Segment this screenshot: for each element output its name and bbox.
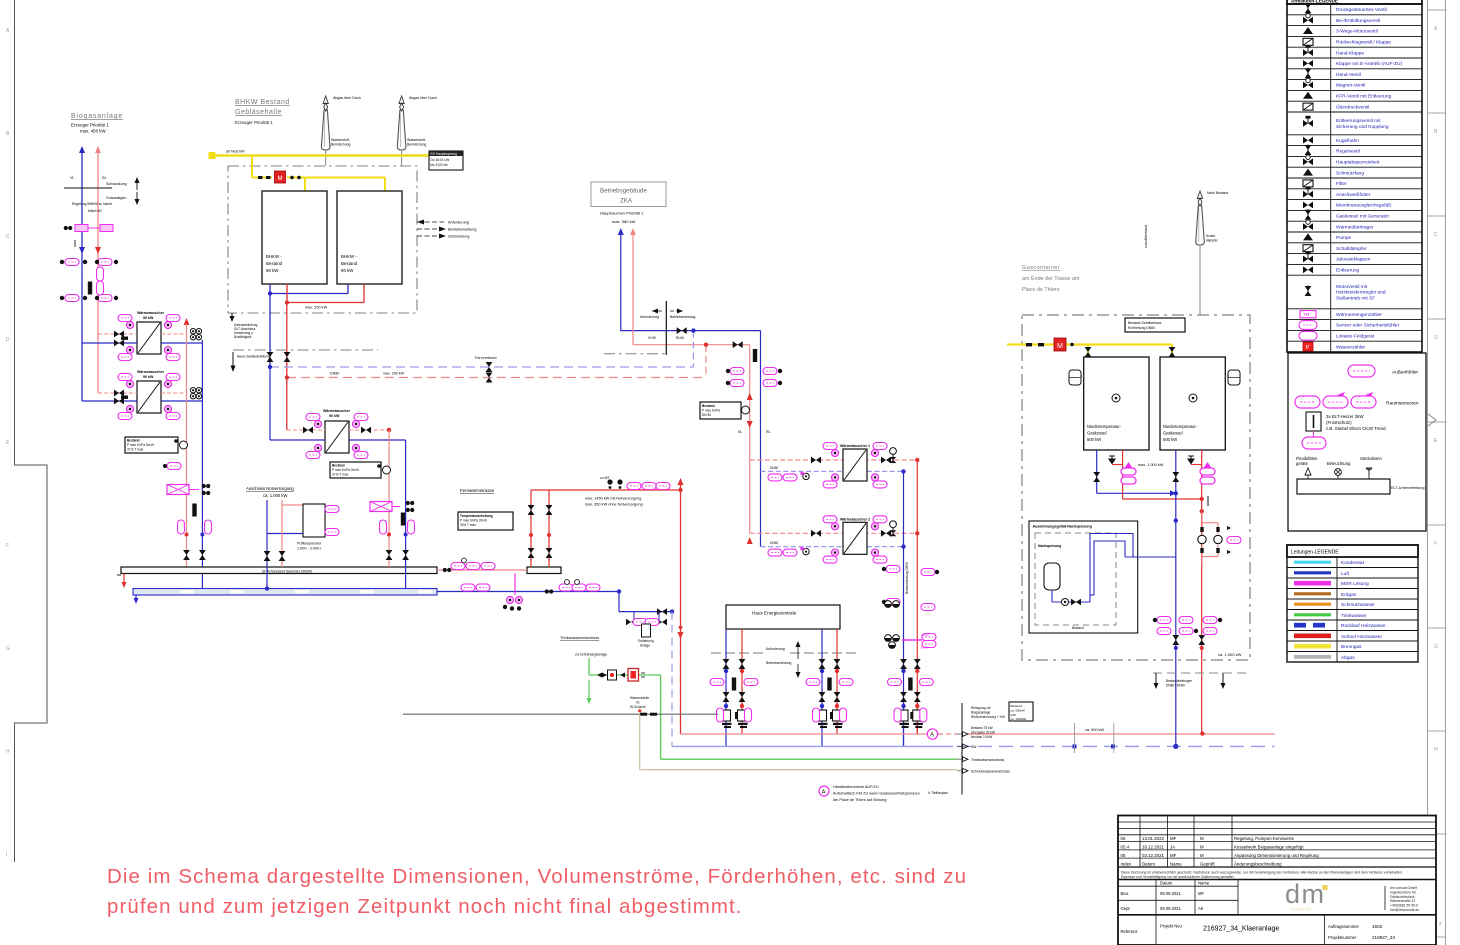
svg-text:Abgas über Dach: Abgas über Dach [333, 96, 361, 100]
wire: red riser x=682 down [680, 483, 682, 734]
svg-text:D: D [1434, 335, 1438, 341]
svg-text:Place de Thiers: Place de Thiers [1022, 287, 1060, 293]
svg-text:dämpfer: dämpfer [1206, 238, 1219, 242]
boundary marker ticks [1074, 723, 1076, 753]
svg-text:Leitungen-LEGENDE: Leitungen-LEGENDE [1291, 550, 1339, 556]
svg-text:Haus Energiezentrale: Haus Energiezentrale [752, 611, 797, 616]
svg-text:Ausdehnungsgefäß-Nachspeisung: Ausdehnungsgefäß-Nachspeisung [1033, 525, 1092, 529]
netz pumps subcircuit [1202, 511, 1218, 565]
wire: right paper frame lines [1428, 0, 1446, 945]
svg-text:Kugelhahn: Kugelhahn [1336, 138, 1359, 144]
capsules below blue Wärmetauscher 2 [768, 541, 797, 556]
svg-text:Bestand: Bestand [341, 261, 358, 266]
svg-text:DN50: DN50 [921, 646, 929, 650]
ausdehnungsgefaess box [1029, 521, 1138, 633]
sensor capsules vertical chain [88, 267, 104, 295]
svg-text:Wasserzähler: Wasserzähler [630, 696, 650, 700]
svg-text:BHKW Bestand: BHKW Bestand [235, 99, 290, 106]
pump kessel 2 (magenta) [1200, 462, 1215, 484]
svg-text:RL: RL [102, 176, 107, 180]
svg-text:+49(0)681 55 55-0: +49(0)681 55 55-0 [1390, 904, 1418, 908]
svg-text:Enthärtung: Enthärtung [638, 639, 654, 643]
svg-text:M: M [278, 176, 283, 182]
svg-text:G: G [1434, 644, 1438, 650]
svg-text:Neubau 10 kW: Neubau 10 kW [971, 735, 992, 739]
svg-text:Betriebsgebäude: Betriebsgebäude [600, 188, 647, 195]
svg-text:37 B T max: 37 B T max [127, 447, 144, 451]
svg-text:Name: Name [1198, 881, 1210, 886]
svg-text:Gascontainer: Gascontainer [1022, 265, 1060, 271]
wire: yellow gas line gascontainer [1007, 343, 1172, 345]
svg-text:Luft: Luft [1341, 571, 1350, 577]
svg-text:Regelventil: Regelventil [1336, 149, 1360, 155]
svg-text:3x ELT-Heizer 2kW: 3x ELT-Heizer 2kW [1326, 414, 1364, 419]
svg-text:M: M [1200, 845, 1204, 850]
svg-text:Bestandsleitungen: Bestandsleitungen [1166, 679, 1192, 683]
svg-text:St 40 Bestand Sammler DN200: St 40 Bestand Sammler DN200 [262, 569, 312, 573]
pump column pair at x=726/742 [725, 629, 727, 746]
gaskessel K1 [1084, 357, 1149, 450]
svg-text:zur Enthärtungsanlage: zur Enthärtungsanlage [575, 653, 607, 657]
svg-text:Lokales Feldgerät: Lokales Feldgerät [1336, 334, 1375, 340]
svg-text:1.000 - 2.000 l: 1.000 - 2.000 l [297, 547, 321, 551]
svg-text:RL: RL [766, 430, 771, 434]
svg-text:Anschweißfutter: Anschweißfutter [1336, 192, 1371, 198]
label box Temperaturanhebung [458, 512, 513, 530]
svg-text:500 kW: 500 kW [1087, 437, 1101, 442]
node: Gascontainer label [1022, 265, 1080, 293]
svg-text:geräte: geräte [1296, 461, 1309, 466]
svg-text:consult: consult [1291, 907, 1313, 912]
motor valve Wärmetauscher 1 [890, 448, 897, 455]
label box Uebergabe [1009, 702, 1033, 721]
svg-text:Jalousieklappen: Jalousieklappen [1336, 257, 1371, 263]
wire: puffer red line [282, 500, 303, 567]
svg-text:Wärmeübertrager: Wärmeübertrager [1336, 224, 1374, 230]
svg-text:Magnet-Ventil: Magnet-Ventil [1336, 83, 1365, 89]
wire: dash-dot boundary below BHKW [233, 349, 378, 351]
wire: blue riser x=202.4 to manifold [201, 340, 203, 589]
svg-text:90 kW: 90 kW [143, 375, 154, 379]
BHKW unit 1 [262, 191, 327, 284]
svg-text:Trinkwasseranschluss: Trinkwasseranschluss [560, 635, 599, 640]
svg-text:Gebläsehalle: Gebläsehalle [235, 109, 282, 116]
svg-text:Eigentum und Vervielfältigung: Eigentum und Vervielfältigung nur mit au… [1121, 875, 1235, 879]
svg-text:500 kW: 500 kW [1163, 437, 1177, 442]
wire: blue riser x=405.6 [405, 440, 407, 589]
svg-text:SW: SW [971, 745, 977, 749]
svg-text:Datum: Datum [1160, 881, 1173, 886]
svg-text:39.6 T max: 39.6 T max [460, 523, 476, 527]
legend table: Armaturen-Symbole [1287, 0, 1422, 352]
svg-text:dm consult GmbH: dm consult GmbH [1390, 886, 1418, 890]
motor valve Wärmetauscher 2 [890, 521, 897, 528]
svg-text:Rückverstromung + KW: Rückverstromung + KW [971, 715, 1005, 719]
svg-text:RL60: RL60 [676, 336, 684, 340]
svg-text:Rücklauf Heizwasser: Rücklauf Heizwasser [1341, 623, 1386, 629]
BHKW unit 2 [337, 191, 402, 284]
node: Biogasanlage label [71, 113, 123, 134]
svg-text:max. 200 kW: max. 200 kW [383, 372, 405, 376]
svg-text:Außenfühler: Außenfühler [1392, 370, 1419, 376]
wire: left paper frame line [15, 0, 48, 862]
svg-text:Klappe mit E-Antrieb (AUF-ZU): Klappe mit E-Antrieb (AUF-ZU) [1336, 61, 1403, 67]
node: Datenanbindung label [231, 313, 233, 321]
svg-text:Nachspeisung: Nachspeisung [1038, 544, 1061, 548]
svg-text:Regelung, Pumpen-Kennwerte: Regelung, Pumpen-Kennwerte [1234, 836, 1295, 841]
svg-text:Hauptabsperreinheit: Hauptabsperreinheit [1336, 160, 1380, 166]
wire: puffer blue line [267, 500, 303, 589]
svg-text:13.01.2022: 13.01.2022 [1142, 836, 1165, 841]
svg-text:DN80: DN80 [330, 372, 339, 376]
svg-text:Name: Name [1170, 861, 1182, 866]
svg-text:(Frostschutz): (Frostschutz) [1326, 420, 1352, 425]
svg-text:Sicherung und Kupplung: Sicherung und Kupplung [1336, 124, 1389, 130]
capsule rows on K2 lines [1153, 617, 1222, 635]
pump: make-up below manifold [514, 574, 516, 596]
svg-text:BHKW -: BHKW - [341, 254, 357, 259]
vessel: Enthaertung [642, 624, 651, 637]
svg-text:Auftragsnummer: Auftragsnummer [1328, 924, 1360, 929]
pump column pair at x=903.5/917.3 [903, 700, 905, 746]
svg-text:Pufferspeicher: Pufferspeicher [297, 542, 322, 546]
manifold: Vorlauf header bar segment 2 [527, 567, 561, 574]
svg-text:Niedertemperatur-: Niedertemperatur- [1163, 424, 1198, 429]
svg-text:Die im Schema dargestellte Dim: Die im Schema dargestellte Dimensionen, … [107, 865, 967, 888]
svg-text:Projekt Neu: Projekt Neu [1160, 924, 1183, 929]
svg-text:Beimischung: Beimischung [407, 142, 427, 146]
wire: ZKA red return [633, 234, 750, 345]
svg-text:Anschluss Notversorgung: Anschluss Notversorgung [246, 486, 294, 491]
svg-text:08.09.2021: 08.09.2021 [1160, 891, 1182, 896]
svg-text:Busfähigkeit: Busfähigkeit [234, 335, 251, 339]
wire: blue main [672, 745, 953, 747]
svg-text:G: G [6, 646, 10, 652]
svg-text:Druckgesteuertes Ventil: Druckgesteuertes Ventil [1336, 7, 1387, 13]
svg-text:TM: TM [1303, 312, 1310, 317]
svg-text:Datum: Datum [1142, 861, 1155, 866]
svg-text:Betriebsmeldung: Betriebsmeldung [766, 661, 792, 665]
svg-text:Überdruckventil: Überdruckventil [1336, 103, 1369, 110]
svg-text:zum Altbestand: zum Altbestand [1144, 225, 1148, 248]
handover circle A (red main) [927, 729, 937, 739]
svg-text:BHKW -: BHKW - [266, 254, 282, 259]
wire: fernwaerme red dashed main [287, 377, 706, 379]
pump cluster top pair3 [885, 601, 936, 650]
wire: manifold left end stubs [123, 574, 125, 585]
legend table: Leitungen-LEGENDE [1287, 545, 1418, 662]
wire: ZKA blue supply [621, 234, 761, 331]
svg-text:Handbedienebene AUF/ZU: Handbedienebene AUF/ZU [833, 785, 879, 789]
svg-text:P max 6 kPa: P max 6 kPa [702, 408, 720, 412]
label box Bestand WT [125, 437, 188, 453]
svg-text:Regelung BHKW zu Nacht: Regelung BHKW zu Nacht [72, 202, 112, 206]
svg-text:Anforderung: Anforderung [448, 221, 469, 225]
svg-text:Schmutzfang: Schmutzfang [1336, 170, 1364, 176]
svg-text:Betriebsmeldung: Betriebsmeldung [670, 315, 696, 319]
wire: verbraucher red riser x=749.7 [749, 345, 751, 534]
svg-text:Störmeldung: Störmeldung [448, 235, 470, 239]
svg-text:A: A [930, 733, 934, 739]
svg-text:DN 50: DN 50 [702, 413, 711, 417]
svg-text:Bestand:: Bestand: [1011, 704, 1023, 708]
magnet valve M (red) on gas branch [275, 171, 286, 183]
svg-text:Be-/Entlüftungsventil: Be-/Entlüftungsventil [1336, 18, 1380, 24]
svg-text:16.12.2021: 16.12.2021 [1142, 845, 1165, 850]
svg-text:Aufschaltisch KM ZU wenn Gaske: Aufschaltisch KM ZU wenn Gaskessel/Netzp… [833, 792, 920, 796]
expansion vessels at kessels [1069, 370, 1084, 385]
svg-text:Bestand: Bestand [1072, 626, 1084, 630]
svg-text:M: M [1057, 343, 1063, 350]
wire: tan schmutzwasser [640, 714, 957, 770]
wire: red riser x=186.5 to manifold [186, 324, 188, 567]
svg-text:Anpassung Dimensionierung und: Anpassung Dimensionierung und Regelung [1234, 853, 1319, 858]
svg-text:Motorventil mit: Motorventil mit [1336, 284, 1368, 290]
svg-text:Wärmetauscher: Wärmetauscher [137, 311, 165, 315]
wire: K1 blue out [1097, 450, 1176, 493]
sensors on trasse [607, 479, 670, 489]
node: left margin row letters [6, 28, 10, 858]
svg-text:Wärmetauscher: Wärmetauscher [137, 370, 165, 374]
svg-text:ZKA: ZKA [620, 198, 633, 205]
svg-text:Wärmetauscher: Wärmetauscher [323, 409, 351, 413]
svg-text:max. 580 kW: max. 580 kW [612, 219, 636, 224]
wire: BHKW red collector [287, 284, 364, 430]
svg-text:Membranausgleichsgefäß: Membranausgleichsgefäß [1336, 203, 1391, 209]
svg-text:F: F [1434, 541, 1437, 547]
gaskessel K2 [1160, 357, 1225, 450]
svg-text:Hauptrauchen Priorität 1: Hauptrauchen Priorität 1 [600, 211, 644, 216]
svg-text:Anforderung: Anforderung [640, 315, 659, 319]
heat exchanger WT-A [82, 311, 202, 361]
svg-text:Brenngas: Brenngas [1341, 644, 1362, 650]
svg-text:Bestand 75 kW: Bestand 75 kW [971, 726, 993, 730]
sensor capsule row 2 [60, 295, 118, 302]
svg-text:Schwankung: Schwankung [106, 182, 127, 186]
svg-text:Schalldämpfer: Schalldämpfer [1336, 246, 1367, 252]
wire: red riser x=917.3 to energiezentrale [916, 460, 918, 734]
below gascontainer: bestand arrows [1153, 672, 1250, 674]
MSR flow meter on red riser [167, 484, 210, 495]
svg-text:am Place de Thiers auf Störung: am Place de Thiers auf Störung [833, 798, 886, 802]
wire: blue riser x=903.5 to energiezentrale [903, 471, 905, 746]
wire: site boundary vertical [961, 703, 963, 795]
svg-text:Hand-Ventil: Hand-Ventil [1336, 72, 1361, 78]
svg-text:ca. 1.000 kW: ca. 1.000 kW [1218, 652, 1242, 657]
svg-text:Anlage: Anlage [640, 643, 650, 647]
svg-text:Bestandsleitung DN50: Bestandsleitung DN50 [905, 562, 909, 594]
svg-text:DN50: DN50 [921, 633, 929, 637]
gascontainer dash-dot enclosure [1022, 315, 1250, 660]
svg-text:06: 06 [1121, 836, 1126, 841]
svg-text:A: A [822, 790, 826, 796]
signal arrows Anforderung/Betriebsmeldung/Stoermeldung [417, 222, 444, 236]
wire: biogas VL riser (blue) [81, 153, 83, 401]
svg-text:Abgas über Dach: Abgas über Dach [409, 96, 437, 100]
svg-text:Pumpe: Pumpe [1336, 235, 1352, 241]
big junction dots on mains [1173, 744, 1178, 749]
svg-text:Wärmemengenzähler: Wärmemengenzähler [1336, 312, 1382, 318]
svg-text:90 kW: 90 kW [266, 268, 279, 273]
svg-text:Biogasanlage: Biogasanlage [71, 113, 123, 120]
svg-text:Betriebsmeldung: Betriebsmeldung [448, 228, 477, 232]
svg-text:KFR-Ventil mit Entleerung: KFR-Ventil mit Entleerung [1336, 94, 1392, 100]
svg-text:VL90: VL90 [648, 336, 656, 340]
wire: red connector between manifolds [437, 569, 527, 571]
pump kessel 1 (magenta) [1121, 462, 1136, 484]
wire: K1 red out + pump [1123, 450, 1202, 499]
svg-text:Schmutzwasser: Schmutzwasser [1341, 602, 1375, 608]
svg-text:Kesselwerk Biogasanlage eingef: Kesselwerk Biogasanlage eingefügt [1234, 845, 1304, 850]
svg-text:Filter: Filter [1336, 181, 1347, 187]
svg-text:Wasserzähler: Wasserzähler [1336, 344, 1366, 350]
svg-text:1502: 1502 [1372, 924, 1383, 929]
svg-text:Rückschlagventil / Klappe: Rückschlagventil / Klappe [1336, 40, 1391, 46]
wire: yellow branch into BHKW [252, 156, 385, 192]
svg-text:Projektnummer: Projektnummer [1328, 935, 1357, 940]
chimney stack 2 [397, 96, 436, 166]
manifold: Vorlauf header bar [121, 567, 437, 574]
wire: red main [681, 733, 928, 735]
legend table: ELT / Fuehler symbols [1288, 353, 1426, 531]
svg-text:prüfen und zum jetzigen Zeitpu: prüfen und zum jetzigen Zeitpunkt noch n… [107, 895, 743, 918]
svg-text:max. 450 kW: max. 450 kW [80, 129, 106, 134]
svg-text:Steckdosen: Steckdosen [1360, 456, 1383, 461]
svg-text:W-Schacht: W-Schacht [630, 705, 646, 709]
svg-text:ca. 1000kW: ca. 1000kW [1011, 717, 1027, 721]
svg-text:ca. 1.000 kW: ca. 1.000 kW [263, 493, 287, 498]
svg-text:am Ende der Trasse am: am Ende der Trasse am [1022, 276, 1080, 282]
signal dashes energiezentrale [711, 652, 859, 654]
valves on risers at boundary [267, 352, 274, 362]
svg-text:Nach Bestand: Nach Bestand [1207, 191, 1228, 195]
svg-text:DN50: DN50 [770, 466, 778, 470]
svg-text:216927_34_Klaeranlage: 216927_34_Klaeranlage [1203, 926, 1279, 933]
manifold: Ruecklauf header bar (blue) [133, 589, 437, 596]
svg-text:VL: VL [70, 176, 74, 180]
wire: yellow branches to kessel [1088, 345, 1172, 358]
svg-text:05.4: 05.4 [1121, 845, 1130, 850]
svg-text:Wärmetauscher 1: Wärmetauscher 1 [840, 444, 870, 448]
svg-text:max. 200 kW: max. 200 kW [305, 306, 328, 310]
wire: fernwaerme blue dashed main [270, 366, 693, 368]
svg-text:Wasserstoff-: Wasserstoff- [407, 138, 426, 142]
svg-text:EG Hauptregelung: EG Hauptregelung [431, 152, 458, 156]
svg-text:Kondensat: Kondensat [1341, 560, 1365, 566]
svg-text:lt. Tiefbauplan: lt. Tiefbauplan [928, 791, 948, 795]
svg-text:F: F [6, 543, 9, 549]
MSR flow meter mid [370, 501, 414, 512]
svg-text:P max 6 kPa 2m³/h: P max 6 kPa 2m³/h [332, 468, 359, 472]
magnet valve M gas (red) [1054, 338, 1066, 351]
svg-text:MSR Leitung: MSR Leitung [1341, 581, 1369, 587]
svg-text:Bestand: Bestand [127, 439, 140, 443]
svg-text:ab Netz kW: ab Netz kW [226, 150, 245, 154]
wire: trasse stubs to manifold2 [531, 490, 549, 567]
svg-text:DN80 / DN50: DN80 / DN50 [1166, 684, 1185, 688]
svg-text:Schall-: Schall- [1206, 234, 1216, 238]
svg-text:C: C [6, 234, 10, 240]
pump group right of WT-A [190, 329, 201, 340]
svg-text:216927_34: 216927_34 [1372, 935, 1395, 940]
svg-text:Übergabe 30 kW: Übergabe 30 kW [971, 730, 995, 734]
label box EG Hauptregelung [429, 151, 463, 170]
heat exchanger WT-B [82, 370, 202, 420]
svg-text:C: C [1434, 232, 1438, 238]
wire: brenngas yellow main [212, 154, 429, 156]
svg-text:ca. 500kW: ca. 500kW [1011, 708, 1025, 712]
svg-text:Entleerungsventil mit: Entleerungsventil mit [1336, 118, 1381, 124]
svg-text:M: M [1200, 853, 1204, 858]
svg-text:P max 6 kPa 2m³/h: P max 6 kPa 2m³/h [460, 519, 487, 523]
svg-text:P: P [1306, 345, 1310, 351]
svg-text:Niedertemperatur-: Niedertemperatur- [1087, 424, 1122, 429]
svg-text:P max 6 kPa 2m³/h: P max 6 kPa 2m³/h [127, 443, 154, 447]
svg-text:I: I [6, 852, 7, 858]
note: Handbedienebene [819, 786, 829, 796]
svg-text:Wärmestraße 12: Wärmestraße 12 [1390, 899, 1415, 903]
svg-text:Erzeuger Priorität 1: Erzeuger Priorität 1 [71, 123, 109, 128]
wire: system boundary tick [64, 187, 112, 189]
sensor capsule row 1 [60, 259, 118, 266]
svg-text:Änderungsbeschreibung: Änderungsbeschreibung [1234, 861, 1282, 866]
wire: blue water treatment [619, 592, 672, 612]
label box Bestand (mid) [330, 462, 391, 478]
svg-text:02.12.2021: 02.12.2021 [1142, 853, 1165, 858]
svg-text:Gaskessel: Gaskessel [1087, 431, 1107, 436]
svg-text:Bestand: Bestand [332, 464, 345, 468]
svg-text:im: im [636, 700, 640, 704]
wire: red trasse line [531, 489, 681, 491]
wire: red riser x=389 to manifold [388, 430, 390, 567]
svg-text:Referenz: Referenz [1121, 929, 1138, 934]
node: Betriebsgebaeude ZKA [591, 182, 666, 207]
vessel + pump inside [1044, 563, 1090, 606]
svg-text:info@dmconsult.de: info@dmconsult.de [1390, 908, 1419, 912]
svg-text:DN50: DN50 [770, 541, 778, 545]
svg-text:Stellantrieb mit SF: Stellantrieb mit SF [1336, 296, 1375, 302]
svg-text:Wärmetauscher 2: Wärmetauscher 2 [840, 517, 870, 521]
wire: BHKW blue collector [270, 284, 348, 367]
svg-text:VL: VL [738, 430, 742, 434]
svg-text:z.B. Stiebel Eltron CK20 Trend: z.B. Stiebel Eltron CK20 Trend [1326, 426, 1386, 431]
svg-text:bis 2:00 Uhr: bis 2:00 Uhr [431, 163, 449, 167]
valve arrows [79, 247, 85, 254]
svg-text:Gaskessel mit Generator: Gaskessel mit Generator [1336, 214, 1389, 220]
softener row [634, 612, 659, 622]
svg-text:Do 16:15 Uhr: Do 16:15 Uhr [431, 158, 451, 162]
svg-text:08.09.2021: 08.09.2021 [1160, 906, 1182, 911]
node: Schwankung arrows [106, 182, 127, 200]
svg-text:D: D [6, 337, 10, 343]
svg-text:ca. 500 kW: ca. 500 kW [1085, 728, 1104, 732]
pump column pair at x=822/837 [821, 629, 823, 746]
wire: blue line rightwards [437, 591, 619, 593]
heat exchanger Wärmetauscher 1 [750, 459, 918, 461]
strainer on blue riser [192, 504, 196, 517]
wire: blue dashed down to main [671, 612, 673, 747]
wire: abwasser gray line [403, 713, 718, 715]
wire: blue expansion loops [1090, 534, 1176, 603]
capsule pairs on risers [726, 368, 782, 387]
svg-text:Index: Index [1121, 861, 1133, 866]
svg-text:max. 650 kW ohne Notversorgung: max. 650 kW ohne Notversorgung [585, 503, 643, 507]
svg-text:MF: MF [1198, 891, 1204, 896]
wire: verbraucher blue riser x=760.5 [760, 331, 762, 547]
svg-text:Armaturen-LEGENDE: Armaturen-LEGENDE [1291, 0, 1338, 4]
svg-text:MF: MF [1170, 853, 1177, 858]
svg-text:AK: AK [1198, 906, 1204, 911]
